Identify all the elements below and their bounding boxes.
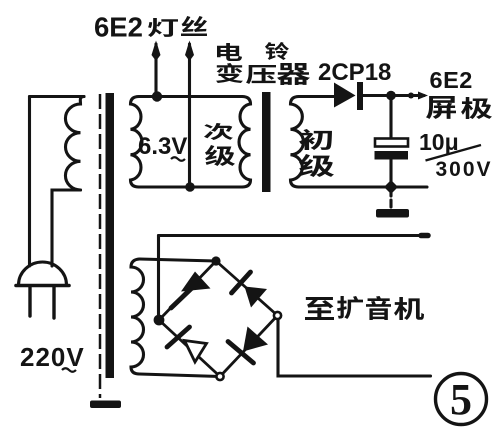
node bridge bottom (AC) open (216, 373, 223, 380)
node bridge right (DC) open (274, 312, 281, 319)
ground (core) (90, 401, 121, 409)
transformer T2 (bell transformer) core (262, 92, 271, 192)
diode D1 2CP18 (334, 83, 356, 108)
transformer T1 core (laminated, grounded) (99, 94, 102, 398)
wire bridge edge bottom-left (159, 320, 220, 377)
wire capacitor top lead (389, 96, 392, 140)
svg-text:5: 5 (450, 375, 472, 424)
label secondary (stacked) (204, 123, 233, 140)
wire bridge right node drop (278, 320, 431, 376)
winding bell-transformer primary (291, 97, 304, 188)
diode D2 (bridge top-left) (181, 272, 211, 292)
diode D5 (bridge bottom-right) (243, 327, 268, 352)
node bridge left (DC) (154, 315, 165, 326)
node junction plate/capacitor (386, 91, 396, 101)
svg-text:6E2: 6E2 (94, 12, 143, 43)
plug P1 (19, 262, 67, 285)
wire bridge edge top-left (159, 261, 216, 320)
ground (B+ return) (376, 209, 409, 218)
diode D4 (bridge bottom-left, outline) (167, 327, 190, 347)
svg-text:300V: 300V (436, 158, 493, 181)
arrow filament lead 1 (152, 41, 161, 62)
wire bridge edge top-right (216, 261, 278, 316)
wire HV winding top to bridge top node (140, 259, 217, 261)
capacitor C1 10uF/300V positive plate (375, 139, 408, 147)
wire bottom edge primary (52, 190, 81, 266)
wire bottom edge of 6.3V loop (139, 185, 242, 188)
node dot on plate lead (408, 93, 414, 99)
wire bridge left node riser (157, 236, 160, 321)
node junction filament1 / top edge (152, 91, 162, 101)
transformer T1 primary winding (65, 97, 84, 191)
svg-text:6.3V: 6.3V (138, 133, 187, 160)
label bell transformer (217, 43, 242, 61)
wire DC output top (to amplifier) (159, 234, 429, 237)
wire capacitor bottom lead (389, 160, 392, 188)
diode D3 (bridge top-right) (232, 272, 251, 293)
wire ground lead below bottom rail (389, 189, 392, 208)
figure number 5 (circled) (436, 374, 487, 425)
wire T2 primary bottom rail (299, 185, 427, 188)
wire filament lead 2 (188, 44, 191, 187)
svg-text:220V: 220V (20, 342, 85, 372)
wire bridge edge bottom-right (220, 316, 278, 377)
label to amplifier (305, 297, 334, 320)
svg-text:2CP18: 2CP18 (318, 59, 391, 86)
winding T1 HV secondary (to bridge) (131, 259, 144, 374)
wire top edge of 6.3V loop (139, 95, 242, 98)
wire filament lead 1 (154, 44, 157, 96)
winding 6.3V filament (left side of loop) (131, 97, 142, 188)
node junction filament2 / bottom edge (185, 182, 195, 192)
svg-text:10μ: 10μ (419, 129, 459, 155)
wire T2 primary top to diode (299, 95, 334, 98)
wire top edge primary (30, 95, 85, 98)
wire diode cathode to plate output (362, 94, 424, 97)
svg-text:6E2: 6E2 (430, 67, 473, 93)
arrow filament lead 2 (185, 41, 194, 62)
wire end blob DC output top (421, 233, 428, 239)
winding bell-transformer secondary (right side of loop) (239, 97, 250, 188)
wire left mains lead (28, 97, 31, 267)
node bridge top (AC) (211, 256, 220, 265)
label primary (stacked) (299, 129, 332, 150)
node junction capacitor/bottom rail (384, 180, 398, 194)
capacitor C1 negative plate (375, 151, 409, 160)
wire HV winding bottom to bridge bottom node (140, 374, 221, 377)
arrow plate output terminal (418, 92, 428, 100)
